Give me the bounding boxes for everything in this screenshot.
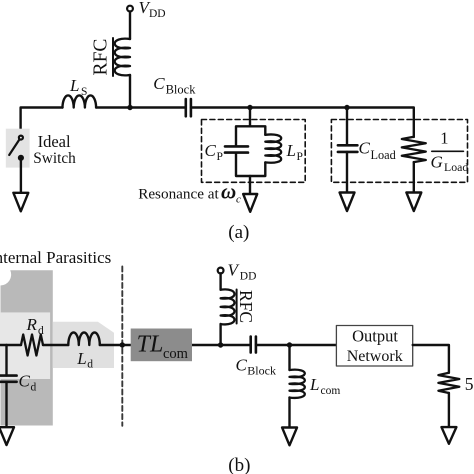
capacitor CBlock (a): [186, 99, 191, 116]
label LP: [286, 141, 303, 163]
wire: tank bottom to ground: [249, 176, 251, 194]
wire: Ld to TLcom: [100, 344, 131, 346]
label 1/GLoad: [431, 129, 469, 175]
svg-text:V: V: [228, 261, 241, 280]
core bar of RFC (b): [236, 290, 238, 324]
inductor RFC (a): [115, 39, 130, 76]
wire: CBlock (b) to Output Network: [256, 344, 336, 346]
svg-text:Block: Block: [247, 364, 276, 378]
svg-text:d: d: [87, 359, 93, 371]
ground below Cd: [0, 427, 14, 445]
label CP: [205, 141, 223, 163]
svg-text:Network: Network: [347, 348, 403, 365]
wire: rail (b) left edge to Rd: [0, 344, 21, 346]
label Ld: [76, 349, 93, 371]
svg-text:S: S: [81, 86, 87, 98]
svg-text:DD: DD: [149, 8, 166, 20]
capacitor CP: [225, 146, 248, 152]
svg-text:Load: Load: [444, 160, 468, 174]
svg-text:R: R: [26, 315, 38, 334]
transmission line TLcom box: [131, 329, 192, 362]
node: junction at separator: [120, 342, 125, 347]
wire: Lcom to ground: [288, 398, 290, 428]
node: junction Lcom: [287, 342, 292, 347]
svg-text:L: L: [69, 76, 79, 95]
svg-text:Block: Block: [166, 83, 197, 97]
svg-text:5: 5: [465, 374, 474, 394]
dashed box: resonator CP LP: [202, 120, 306, 183]
ground below tank: [243, 194, 257, 212]
wire: load resistor to ground: [448, 393, 450, 427]
Output Network box: [336, 326, 412, 367]
svg-text:com: com: [163, 346, 189, 362]
svg-text:C: C: [205, 141, 217, 160]
gray box: Rd region: [0, 312, 50, 379]
fraction bar of 1/GLoad label: [432, 150, 464, 152]
label Resonance at wc: [138, 180, 241, 206]
svg-text:d: d: [38, 325, 44, 337]
svg-text:C: C: [359, 139, 371, 158]
label VDD (b): [228, 261, 257, 283]
ground below Lcom: [282, 428, 297, 446]
resistor 50 ohm: [438, 373, 459, 393]
node: junction RFC (b): [218, 342, 223, 347]
node: junction CP branch: [247, 105, 252, 110]
wire: RFC to rail junction: [129, 75, 131, 108]
svg-text:d: d: [31, 382, 37, 394]
switch gray background: [6, 129, 30, 168]
inductor Ld: [68, 332, 100, 345]
label Lcom: [309, 375, 340, 397]
node: junction RFC/rail: [127, 105, 132, 110]
wire: rail down to CLoad: [346, 108, 348, 146]
ideal switch: [9, 136, 23, 160]
wire: Cd branch: [5, 345, 7, 427]
node: junction CLoad branch: [344, 105, 349, 110]
wire: Output Network to load resistor: [413, 345, 449, 373]
dashed separator line: [121, 267, 123, 426]
label CLoad: [359, 139, 396, 163]
ground below switch: [13, 193, 28, 212]
svg-text:Ideal: Ideal: [38, 132, 71, 151]
ground below CLoad: [340, 193, 355, 212]
wire: switch to ground: [20, 160, 22, 193]
wire: CBlock to right corner of rail (a): [191, 108, 414, 138]
wire: Rd to Ld: [43, 344, 68, 346]
wire: rail to tank top: [249, 108, 251, 127]
svg-text:(a): (a): [228, 222, 249, 243]
wire: VDD down to RFC coil: [129, 12, 131, 40]
svg-text:DD: DD: [240, 271, 257, 283]
svg-text:L: L: [76, 349, 86, 368]
wire: tank loop frame: [236, 126, 265, 176]
svg-text:Output: Output: [352, 327, 398, 346]
svg-text:Internal Parasitics: Internal Parasitics: [0, 248, 111, 267]
label Cd: [19, 372, 37, 394]
wire: resistor to ground: [413, 162, 415, 192]
ground below 1/GLoad: [406, 193, 421, 212]
svg-text:1: 1: [440, 129, 448, 148]
resistor 1/GLoad: [402, 137, 426, 162]
svg-text:C: C: [19, 372, 31, 391]
wire: RFC (b) to rail: [219, 324, 221, 345]
wire: LS to CBlock: [96, 106, 186, 108]
wire: CLoad to ground: [346, 152, 348, 193]
svg-text:C: C: [236, 356, 248, 375]
dashed box: load CLoad GLoad: [331, 120, 467, 183]
inductor LP: [265, 134, 281, 162]
gray arrow: drain lead: [53, 322, 114, 368]
label LS: [69, 76, 87, 98]
label CBlock (b): [236, 356, 276, 378]
svg-text:P: P: [297, 151, 303, 163]
svg-text:L: L: [309, 375, 319, 394]
svg-text:ω: ω: [221, 180, 236, 204]
capacitor CBlock (b): [251, 337, 256, 353]
svg-text:Switch: Switch: [33, 150, 76, 167]
inductor LS: [63, 95, 97, 107]
terminal VDD (a): [127, 6, 133, 12]
label Ideal Switch: [33, 132, 76, 167]
core bar of RFC (a): [112, 38, 114, 76]
svg-text:c: c: [236, 194, 241, 206]
svg-text:com: com: [321, 385, 341, 397]
svg-text:G: G: [431, 153, 443, 172]
label VDD (a): [139, 0, 166, 20]
svg-text:C: C: [153, 74, 165, 93]
svg-text:RFC: RFC: [91, 39, 112, 76]
svg-text:RFC: RFC: [236, 290, 256, 323]
svg-text:Resonance at: Resonance at: [138, 185, 219, 202]
svg-text:Load: Load: [371, 148, 396, 162]
label Output Network: [347, 327, 403, 365]
ground below load: [442, 427, 457, 444]
wire: VDD (b) down to RFC: [219, 273, 221, 289]
label TLcom: [137, 331, 189, 362]
inductor Lcom: [290, 370, 305, 398]
svg-text:TL: TL: [137, 331, 164, 357]
label CBlock (a): [153, 74, 196, 97]
wire: main horizontal rail (a) left segment with corner to switch: [21, 108, 63, 137]
svg-text:(b): (b): [228, 455, 250, 474]
label Rd: [26, 315, 45, 337]
wire: TLcom to CBlock (b): [192, 344, 250, 346]
svg-text:L: L: [286, 141, 296, 160]
capacitor Cd: [0, 376, 17, 382]
gray blob: internal parasitics body: [1, 270, 53, 425]
capacitor CLoad: [338, 145, 358, 152]
inductor RFC (b): [221, 289, 235, 324]
svg-text:P: P: [217, 151, 223, 163]
wire: down to Lcom: [288, 345, 290, 370]
terminal VDD (b): [218, 268, 224, 274]
resistor Rd: [21, 335, 43, 356]
